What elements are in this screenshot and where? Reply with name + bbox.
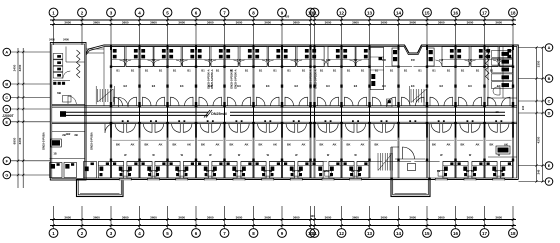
svg-text:B1: B1 [490,69,494,73]
svg-text:3600: 3600 [381,21,388,25]
svg-text:3600: 3600 [93,216,100,220]
svg-text:Na: Na [206,169,210,173]
svg-text:FR: FR [180,58,184,62]
svg-text:420: 420 [310,214,315,218]
svg-text:E3: E3 [237,84,241,88]
svg-text:240: 240 [537,169,541,174]
svg-text:B1: B1 [131,69,135,73]
svg-text:3600: 3600 [264,21,271,25]
svg-text:E3: E3 [152,84,156,88]
svg-text:BK: BK [259,143,263,147]
svg-text:3B: 3B [74,133,78,137]
svg-text:3600: 3600 [325,21,332,25]
svg-text:AK: AK [333,143,337,147]
svg-text:3600: 3600 [293,216,300,220]
svg-text:B1: B1 [432,69,436,73]
svg-text:3600: 3600 [122,216,129,220]
svg-text:3600: 3600 [207,21,214,25]
svg-text:FR: FR [468,58,472,62]
svg-text:3600: 3600 [409,216,416,220]
svg-text:E3: E3 [180,84,184,88]
svg-text:B1: B1 [320,69,324,73]
svg-text:B1: B1 [187,69,191,73]
svg-text:3600: 3600 [236,216,243,220]
svg-text:B1: B1 [116,69,120,73]
svg-text:DN25-S-PD50-A: DN25-S-PD50-A [207,69,211,88]
svg-text:B1: B1 [333,69,337,73]
svg-text:E3: E3 [440,84,444,88]
svg-text:3600: 3600 [64,21,71,25]
svg-text:11: 11 [312,10,317,15]
svg-text:BK: BK [145,143,149,147]
svg-text:D: D [548,112,551,116]
svg-text:FR: FR [266,58,270,62]
svg-text:BK: BK [490,143,494,147]
svg-text:Na: Na [121,169,125,173]
svg-text:DN25-S-PUBA: DN25-S-PUBA [42,132,46,150]
svg-text:18: 18 [510,10,516,15]
svg-text:B1: B1 [216,69,220,73]
svg-text:B1: B1 [173,69,177,73]
svg-text:A: A [5,51,8,55]
svg-text:3600: 3600 [438,216,445,220]
svg-text:4200: 4200 [18,137,22,144]
svg-text:DN25-S-PD50-A: DN25-S-PD50-A [234,69,238,88]
svg-text:6900: 6900 [13,137,17,144]
svg-text:3600: 3600 [467,21,474,25]
svg-text:BK: BK [116,143,120,147]
svg-text:3600: 3600 [352,216,359,220]
svg-text:FR: FR [294,58,298,62]
svg-text:A: A [548,46,551,50]
svg-text:B1: B1 [404,69,408,73]
svg-text:E: E [548,164,551,168]
svg-text:1B: 1B [53,152,56,156]
svg-text:B1: B1 [245,69,249,73]
svg-text:3600: 3600 [207,216,214,220]
svg-text:3600: 3600 [150,21,157,25]
svg-text:3600: 3600 [352,21,359,25]
svg-text:FR: FR [208,58,212,62]
svg-text:E: E [6,120,9,124]
svg-text:E3: E3 [266,84,270,88]
svg-text:DN25-S-PD50-A: DN25-S-PD50-A [309,69,313,88]
svg-text:10: 10 [495,110,499,114]
svg-text:FR: FR [152,58,156,62]
svg-text:FR: FR [326,58,330,62]
svg-text:B: B [5,83,8,87]
svg-text:B1: B1 [347,69,351,73]
svg-text:B1: B1 [145,69,149,73]
svg-text:DN25-S-PD50-A: DN25-S-PD50-A [314,69,318,88]
svg-text:DN25-S-PD50-A: DN25-S-PD50-A [230,69,234,88]
svg-text:12: 12 [339,231,345,236]
svg-text:Na: Na [149,169,153,173]
svg-text:C: C [548,100,551,104]
svg-text:2B: 2B [62,133,66,137]
svg-text:16: 16 [453,231,459,236]
svg-text:3600: 3600 [178,21,185,25]
svg-text:B1: B1 [476,69,480,73]
svg-text:13: 13 [367,10,373,15]
svg-text:4200: 4200 [537,136,541,143]
svg-text:3600: 3600 [438,21,445,25]
svg-text:14: 14 [396,10,402,15]
svg-text:FR: FR [237,58,241,62]
svg-text:B1: B1 [375,69,379,73]
svg-text:AK: AK [447,143,451,147]
svg-text:2400: 2400 [49,38,55,42]
svg-text:E3: E3 [497,84,501,88]
svg-text:DN25-S-PD50-A: DN25-S-PD50-A [210,69,214,88]
svg-text:AK: AK [245,143,249,147]
svg-text:FR: FR [497,58,501,62]
svg-text:BK: BK [320,143,324,147]
svg-text:B1: B1 [201,69,205,73]
svg-text:Na: Na [323,169,327,173]
svg-text:FR: FR [411,58,415,62]
svg-text:Na: Na [263,169,267,173]
svg-text:BK: BK [347,143,351,147]
svg-text:11: 11 [312,231,317,236]
svg-text:3600: 3600 [409,21,416,25]
svg-text:3600: 3600 [178,216,185,220]
svg-text:FR: FR [354,58,358,62]
svg-text:Na: Na [351,169,355,173]
svg-text:FR: FR [439,58,443,62]
svg-text:BK: BK [230,143,234,147]
svg-text:DN25-S-PUBA: DN25-S-PUBA [90,132,94,150]
svg-text:Na: Na [466,169,470,173]
svg-text:240: 240 [521,105,525,110]
svg-text:B1: B1 [273,69,277,73]
svg-text:17: 17 [482,10,488,15]
svg-text:Na: Na [177,169,181,173]
svg-text:3600: 3600 [150,216,157,220]
svg-text:B1: B1 [390,69,394,73]
svg-text:13: 13 [367,231,373,236]
svg-text:AK: AK [159,143,163,147]
svg-text:2400: 2400 [63,38,69,42]
svg-text:1B2: 1B2 [66,132,71,136]
svg-text:BK: BK [173,143,177,147]
svg-text:C: C [5,96,8,100]
svg-text:AK: AK [302,143,306,147]
svg-text:Na: Na [494,169,498,173]
svg-text:3600: 3600 [64,216,71,220]
svg-text:E3: E3 [124,84,128,88]
svg-text:12: 12 [339,10,345,15]
svg-text:AK: AK [273,143,277,147]
svg-text:AK: AK [131,143,135,147]
svg-text:AK: AK [216,143,220,147]
svg-text:B1: B1 [159,69,163,73]
svg-text:BK: BK [432,143,436,147]
svg-text:G: G [5,174,8,178]
svg-text:B1: B1 [461,69,465,73]
svg-text:BK: BK [201,143,205,147]
svg-text:3600: 3600 [381,216,388,220]
svg-text:AK: AK [476,143,480,147]
svg-text:3600: 3600 [325,216,332,220]
svg-text:E3: E3 [354,84,358,88]
svg-text:E3: E3 [411,84,415,88]
svg-text:3300: 3300 [537,60,541,67]
svg-text:18: 18 [510,231,516,236]
svg-text:B1: B1 [259,69,263,73]
svg-text:15: 15 [424,10,430,15]
svg-text:AK: AK [361,143,365,147]
svg-text:4200: 4200 [18,64,22,71]
svg-text:B1: B1 [361,69,365,73]
svg-text:16: 16 [453,10,459,15]
svg-text:B1: B1 [287,69,291,73]
svg-text:14: 14 [396,231,402,236]
svg-text:B: B [548,77,551,81]
svg-text:E3: E3 [326,84,330,88]
svg-text:3600: 3600 [467,216,474,220]
svg-text:J2000T: J2000T [2,114,14,118]
svg-text:D: D [5,108,8,112]
svg-text:E3: E3 [295,84,299,88]
svg-text:3600: 3600 [495,21,502,25]
svg-text:FR: FR [123,58,127,62]
svg-text:3600: 3600 [293,21,300,25]
svg-text:BK: BK [375,143,379,147]
svg-text:15: 15 [424,231,430,236]
svg-text:Na: Na [235,169,239,173]
svg-text:E3: E3 [468,84,472,88]
svg-text:B1: B1 [447,69,451,73]
svg-text:AK: AK [187,143,191,147]
svg-text:Na: Na [292,169,296,173]
svg-text:B1: B1 [302,69,306,73]
svg-text:B1: B1 [418,69,422,73]
svg-text:3600: 3600 [495,216,502,220]
svg-text:3600: 3600 [236,21,243,25]
svg-text:Na: Na [437,169,441,173]
svg-text:3600: 3600 [122,21,129,25]
svg-text:BK: BK [287,143,291,147]
svg-text:BK: BK [461,143,465,147]
svg-text:2400: 2400 [13,64,17,71]
svg-text:E3: E3 [382,84,386,88]
svg-text:17: 17 [482,231,488,236]
svg-text:3600: 3600 [93,21,100,25]
svg-text:3600: 3600 [264,216,271,220]
svg-text:420: 420 [285,15,290,19]
